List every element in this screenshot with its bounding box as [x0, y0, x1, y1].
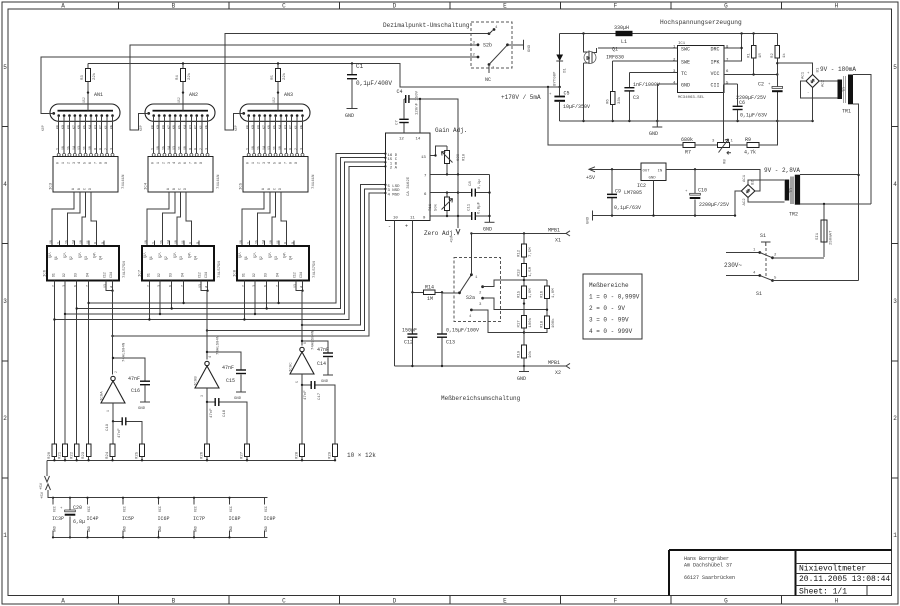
- divider resistor R15: [518, 286, 534, 316]
- svg-text:E: E: [503, 3, 507, 10]
- IC1 pin 7 wire: [430, 173, 490, 175]
- sense wire pin 2: [613, 61, 678, 92]
- range switch S2a dashed box: [454, 257, 500, 321]
- svg-text:47nF: 47nF: [304, 390, 308, 400]
- svg-text:10 × 12k: 10 × 12k: [347, 452, 376, 459]
- feedback resistor R9: [730, 121, 778, 156]
- svg-text:47nF: 47nF: [317, 347, 329, 353]
- svg-text:B: B: [172, 3, 176, 10]
- svg-text:C17: C17: [318, 392, 322, 400]
- svg-text:IC4: IC4: [145, 182, 149, 190]
- svg-text:47nF: 47nF: [118, 428, 122, 438]
- svg-text:+: +: [405, 224, 408, 230]
- ground at C16: [138, 402, 150, 411]
- frame column ticks: [119, 2, 782, 604]
- boost diode D1: [554, 34, 568, 89]
- svg-text:230V~: 230V~: [724, 262, 742, 269]
- svg-text:CII: CII: [711, 83, 720, 89]
- svg-text:C12: C12: [404, 340, 413, 346]
- svg-text:C1: C1: [356, 63, 364, 70]
- svg-text:74141N: 74141N: [122, 174, 126, 189]
- svg-text:C16: C16: [131, 388, 140, 394]
- svg-text:GND: GND: [528, 44, 532, 52]
- bus junction dots: [53, 302, 280, 321]
- svg-text:IC3P: IC3P: [52, 516, 64, 522]
- bridge AC2 wire: [819, 80, 837, 82]
- ground symbol at C1: [345, 109, 358, 120]
- feedback resistor R7: [681, 137, 718, 156]
- svg-text:IC9P: IC9P: [264, 516, 276, 522]
- capacitor C17: [301, 381, 335, 444]
- svg-text:2 = 0 - 9V: 2 = 0 - 9V: [589, 305, 625, 312]
- svg-text:F: F: [614, 598, 618, 605]
- switching regulator IC MC34063: [673, 42, 729, 100]
- svg-text:H: H: [835, 3, 839, 10]
- svg-text:A: A: [61, 598, 65, 605]
- svg-text:R5: R5: [271, 75, 275, 80]
- HV feedback wire: [548, 87, 683, 145]
- svg-text:R13: R13: [518, 269, 522, 277]
- HV section top rail: [560, 33, 778, 35]
- timing capacitor C3: [624, 82, 660, 121]
- svg-text:74LS75N: 74LS75N: [123, 261, 127, 278]
- svg-text:R23: R23: [82, 451, 86, 459]
- svg-text:GND: GND: [649, 131, 658, 137]
- svg-text:100k: 100k: [528, 317, 533, 327]
- svg-text:22k: 22k: [187, 72, 192, 80]
- svg-text:3: 3: [200, 395, 204, 397]
- switch S2a: [442, 273, 484, 319]
- svg-text:IC2: IC2: [637, 183, 646, 189]
- feedback pins 7+8 wires: [724, 34, 742, 62]
- svg-text:12: 12: [399, 138, 404, 142]
- switch S2b: [473, 26, 524, 83]
- svg-text:R19: R19: [518, 350, 522, 358]
- svg-text:0,1μF/63V: 0,1μF/63V: [740, 113, 767, 119]
- svg-text:C: C: [282, 598, 286, 605]
- svg-text:R12: R12: [518, 249, 522, 257]
- svg-text:Hans Borngräber: Hans Borngräber: [684, 556, 729, 562]
- svg-text:MPB1: MPB1: [548, 228, 560, 234]
- +5V output arrow: [586, 167, 595, 181]
- svg-text:1: 1: [893, 532, 897, 539]
- +5V arrow at supply row: [41, 484, 53, 499]
- svg-text:Dezimalpunkt-Umschaltung: Dezimalpunkt-Umschaltung: [383, 22, 470, 29]
- svg-text:IC3: IC3: [50, 182, 54, 190]
- svg-text:Gain Adj.: Gain Adj.: [435, 127, 467, 134]
- mains switch S1: [726, 233, 859, 297]
- svg-text:C15: C15: [226, 378, 235, 384]
- svg-text:VCC: VCC: [87, 506, 91, 512]
- svg-text:GND: GND: [483, 227, 492, 233]
- bridge AC1 wire: [801, 81, 838, 98]
- svg-text:E: E: [503, 598, 507, 605]
- svg-text:74ALS04N: 74ALS04N: [312, 330, 316, 350]
- BCD bus line bit C: [77, 158, 386, 309]
- svg-text:250mAT: 250mAT: [830, 230, 834, 245]
- ground at S2b: [524, 40, 533, 52]
- input connector MPB1 X1: [471, 228, 570, 244]
- svg-text:4 = 0 - 999V: 4 = 0 - 999V: [589, 328, 633, 335]
- bridge rectifier B2: [741, 174, 755, 205]
- svg-text:0,1μF/63V: 0,1μF/63V: [614, 205, 641, 211]
- svg-text:1,5M: 1,5M: [529, 266, 533, 276]
- frame column letters top: [61, 3, 838, 10]
- capacitor C12: [402, 292, 417, 366]
- svg-text:F: F: [614, 3, 618, 10]
- svg-text:SWE: SWE: [681, 60, 690, 66]
- svg-text:74141N: 74141N: [217, 174, 221, 189]
- svg-text:IC9C: IC9C: [290, 362, 294, 372]
- pullup resistors R20-R29: [48, 444, 337, 460]
- svg-text:Zero Adj.: Zero Adj.: [424, 230, 456, 237]
- svg-text:AC2: AC2: [822, 79, 826, 87]
- ground symbol at rail end: [587, 211, 593, 225]
- divider resistor R18: [524, 316, 556, 333]
- svg-text:R20: R20: [48, 451, 52, 459]
- svg-text:50k: 50k: [434, 203, 439, 211]
- svg-text:GND: GND: [264, 526, 268, 532]
- svg-text:0,1μ: 0,1μ: [478, 179, 482, 189]
- low voltage ground rail: [593, 215, 736, 217]
- svg-text:C4: C4: [397, 89, 403, 95]
- svg-text:AN1: AN1: [94, 92, 103, 98]
- svg-text:VCC: VCC: [123, 506, 127, 512]
- svg-text:74141N: 74141N: [312, 174, 316, 189]
- capacitor C11: [430, 201, 490, 220]
- svg-text:G: G: [724, 3, 728, 10]
- HV filter capacitor C5: [549, 87, 590, 121]
- svg-text:+5V: +5V: [40, 482, 44, 490]
- transformer TR1: [838, 75, 854, 115]
- svg-text:IC8: IC8: [234, 269, 238, 277]
- svg-text:C5: C5: [564, 91, 570, 97]
- S2a contact 4 wire: [471, 310, 524, 333]
- svg-text:150pF: 150pF: [402, 328, 417, 334]
- timing wire pin 3: [629, 73, 677, 88]
- inverter IC9C input wire: [301, 374, 303, 385]
- svg-text:1k: 1k: [782, 53, 787, 58]
- frame row ticks: [2, 126, 898, 478]
- svg-text:GND: GND: [53, 526, 57, 532]
- svg-text:L1: L1: [621, 39, 627, 45]
- svg-text:IC5P: IC5P: [122, 516, 134, 522]
- capacitor C19: [106, 417, 142, 444]
- svg-text:C20: C20: [73, 505, 82, 511]
- svg-text:MPB1: MPB1: [548, 360, 560, 366]
- svg-text:R28: R28: [296, 451, 300, 459]
- svg-text:IC9B: IC9B: [195, 376, 199, 386]
- title block: [669, 550, 892, 597]
- svg-text:SWC: SWC: [681, 47, 690, 53]
- svg-text:MC34063-SEL: MC34063-SEL: [678, 96, 705, 100]
- svg-text:C19: C19: [106, 423, 110, 431]
- svg-text:D: D: [393, 598, 397, 605]
- TR2 primary bottom wire: [800, 203, 871, 205]
- anode supply rail +170V: [88, 64, 560, 88]
- svg-text:Am Dachshübel 37: Am Dachshübel 37: [684, 563, 732, 569]
- svg-text:DRC: DRC: [711, 47, 720, 53]
- svg-text:D: D: [393, 3, 397, 10]
- svg-text:X2: X2: [555, 370, 561, 376]
- svg-text:IC6: IC6: [44, 269, 48, 277]
- svg-text:IPK: IPK: [711, 60, 720, 66]
- svg-text:680k: 680k: [681, 137, 693, 143]
- capacitor C8: [458, 179, 490, 197]
- svg-text:GND: GND: [517, 376, 526, 382]
- svg-text:S2b: S2b: [483, 43, 492, 49]
- svg-text:3 = 0 - 99V: 3 = 0 - 99V: [589, 317, 629, 324]
- latch IC6 data input columns down to pullups: [54, 281, 88, 445]
- svg-text:GND: GND: [123, 526, 127, 532]
- svg-text:74LS75N: 74LS75N: [313, 261, 317, 278]
- svg-text:IRF830: IRF830: [606, 55, 624, 61]
- svg-text:100k: 100k: [551, 318, 556, 328]
- svg-text:2200μF/25V: 2200μF/25V: [699, 202, 729, 208]
- inverter IC9A input wire: [112, 403, 114, 421]
- svg-text:SI1: SI1: [816, 232, 820, 240]
- trimmer R8: [712, 84, 734, 164]
- sense resistor R6: [607, 92, 623, 122]
- svg-text:1R: 1R: [759, 53, 763, 58]
- BCD bus line bit B: [65, 162, 385, 314]
- bridge top feed wire: [777, 63, 812, 74]
- svg-text:AC2: AC2: [743, 198, 747, 206]
- frame column letters bottom: [61, 598, 838, 605]
- svg-text:R25: R25: [136, 451, 140, 459]
- svg-text:5: 5: [893, 64, 897, 71]
- svg-text:C8: C8: [469, 181, 473, 186]
- svg-text:Hochspannungserzeugung: Hochspannungserzeugung: [660, 19, 742, 26]
- svg-text:IC1: IC1: [678, 42, 686, 46]
- svg-text:VCC: VCC: [229, 506, 233, 512]
- svg-text:4,7k: 4,7k: [744, 150, 756, 156]
- ground right of IC1: [483, 174, 495, 232]
- svg-text:R2: R2: [771, 53, 775, 58]
- svg-text:VCC: VCC: [264, 506, 268, 512]
- svg-text:S2a: S2a: [466, 295, 475, 301]
- svg-text:R29: R29: [329, 451, 333, 459]
- svg-text:47nF: 47nF: [210, 408, 214, 418]
- svg-text:GND: GND: [587, 216, 591, 224]
- decimal point wire tube1 to S2b: [41, 57, 478, 113]
- capacitor C1: [347, 63, 392, 109]
- svg-text:C11: C11: [468, 203, 472, 211]
- svg-text:3: 3: [3, 298, 7, 305]
- svg-text:R14: R14: [425, 285, 434, 291]
- svg-text:47nF: 47nF: [222, 365, 234, 371]
- svg-text:R3: R3: [81, 75, 85, 80]
- svg-text:6,8μF: 6,8μF: [478, 201, 482, 214]
- bypass capacitor C6: [733, 100, 767, 121]
- svg-text:LM7805: LM7805: [624, 190, 642, 196]
- svg-text:A: A: [61, 3, 65, 10]
- electrolytic capacitor C20: [60, 498, 85, 538]
- svg-text:6,8μ: 6,8μ: [73, 519, 85, 525]
- svg-text:4: 4: [893, 181, 897, 188]
- svg-text:IC5: IC5: [240, 182, 244, 190]
- regulator ground lead: [653, 180, 655, 215]
- svg-text:GND: GND: [649, 177, 657, 181]
- svg-text:R8: R8: [724, 159, 728, 164]
- svg-text:680: 680: [457, 153, 461, 161]
- svg-text:TR: TR: [843, 87, 847, 92]
- +5V arrow at trimmer column: [451, 229, 461, 243]
- gate drive wire pin 1: [598, 47, 678, 49]
- svg-text:C7: C7: [396, 120, 400, 125]
- resistor R14: [411, 285, 443, 303]
- svg-text:4: 4: [208, 356, 212, 358]
- latch IC7 data input columns: [149, 281, 183, 320]
- svg-text:C: C: [282, 3, 286, 10]
- svg-text:330μH: 330μH: [614, 25, 629, 31]
- nixie stage 1 (tube AN1, driver IC3, latch IC6): [47, 64, 120, 292]
- svg-text:R22: R22: [70, 451, 74, 459]
- svg-text:1,0M: 1,0M: [552, 288, 556, 298]
- bridge minus wire: [812, 88, 814, 122]
- svg-text:IC4P: IC4P: [87, 516, 99, 522]
- svg-text:66127 Saarbrücken: 66127 Saarbrücken: [684, 575, 735, 581]
- svg-text:G: G: [724, 598, 728, 605]
- frame row numbers right: [893, 64, 897, 539]
- nixie stage 3 (tube AN3, driver IC5, latch IC8): [237, 64, 310, 292]
- digit select line MSD: [113, 193, 386, 336]
- trimmer R11: [429, 193, 453, 216]
- ground at C14: [321, 375, 333, 384]
- svg-text:IC7: IC7: [139, 269, 143, 277]
- +5V supply arrow left: [40, 460, 50, 490]
- svg-text:S1: S1: [760, 233, 766, 239]
- capacitor C4: [397, 89, 459, 228]
- ground wire pin 4: [657, 84, 677, 121]
- S2a contact 2 wire: [483, 280, 524, 287]
- resistor R1: [748, 34, 764, 75]
- svg-text:4: 4: [3, 181, 7, 188]
- ground below X2: [517, 366, 529, 382]
- svg-text:GND: GND: [321, 380, 329, 384]
- svg-text:AN2: AN2: [189, 92, 198, 98]
- IC1 pin 6 wire: [430, 192, 458, 194]
- A/D converter IC1 CA3162E: [384, 133, 430, 230]
- title block owner text: [684, 556, 735, 581]
- svg-text:9V - 180mA: 9V - 180mA: [820, 66, 856, 73]
- bypass capacitor C9: [607, 169, 641, 215]
- S2a contact 3 wire: [483, 298, 547, 310]
- inverter IC9B: [195, 335, 221, 397]
- capacitor C16: [112, 357, 150, 402]
- svg-text:10: 10: [393, 217, 398, 221]
- capacitor C7: [396, 99, 409, 133]
- smoothing capacitor C10: [685, 169, 729, 215]
- nixie stage 2 (tube AN2, driver IC4, latch IC7): [142, 64, 215, 292]
- svg-text:10k: 10k: [528, 350, 533, 358]
- bridge B2 AC wires: [748, 180, 785, 202]
- IC1 plus input riser pin 11: [411, 221, 413, 293]
- svg-text:H: H: [835, 598, 839, 605]
- svg-text:GND: GND: [194, 526, 198, 532]
- latch strobe column 1: [112, 291, 114, 375]
- svg-text:74ALS04N: 74ALS04N: [123, 342, 127, 362]
- +5V rail: [589, 168, 641, 170]
- digit select line NSD: [207, 189, 385, 331]
- svg-text:C3: C3: [633, 95, 639, 101]
- svg-text:Sheet: 1/1: Sheet: 1/1: [799, 588, 847, 597]
- svg-text:C13: C13: [446, 340, 455, 346]
- svg-text:GND: GND: [234, 397, 242, 401]
- svg-text:TC: TC: [681, 71, 687, 77]
- svg-text:IC6P: IC6P: [158, 516, 170, 522]
- BCD bus line bit D: [89, 154, 386, 303]
- svg-text:7,5M: 7,5M: [529, 247, 533, 257]
- svg-text:4 MSD: 4 MSD: [388, 193, 401, 197]
- svg-text:1: 1: [3, 532, 7, 539]
- svg-text:C9: C9: [615, 189, 621, 195]
- svg-text:IC7P: IC7P: [193, 516, 205, 522]
- svg-text:KOP: KOP: [234, 125, 238, 131]
- svg-text:Meßbereiche: Meßbereiche: [589, 282, 629, 289]
- svg-text:13: 13: [421, 156, 426, 160]
- latch strobe column 3: [301, 291, 303, 346]
- voltage regulator IC2 LM7805: [624, 163, 666, 196]
- svg-text:VCC: VCC: [194, 506, 198, 512]
- bridge rectifier B1: [802, 67, 826, 95]
- rectified supply capacitor C2: [736, 62, 783, 121]
- svg-text:1M: 1M: [427, 296, 433, 302]
- regulator input rail: [666, 169, 760, 191]
- measurement range info box: [583, 274, 642, 339]
- svg-text:Meßbereichsumschaltung: Meßbereichsumschaltung: [441, 395, 521, 402]
- svg-text:1nF/1000V: 1nF/1000V: [633, 82, 660, 88]
- latch strobe column 2: [206, 291, 208, 360]
- svg-text:R11: R11: [429, 203, 433, 211]
- divider resistor R16: [524, 280, 556, 316]
- svg-text:+5V: +5V: [586, 175, 595, 181]
- svg-text:10μF/350V: 10μF/350V: [563, 104, 590, 110]
- svg-text:IC9A: IC9A: [101, 391, 105, 401]
- svg-text:KOP: KOP: [41, 125, 45, 131]
- svg-text:33k: 33k: [617, 96, 622, 104]
- svg-text:BYT08P: BYT08P: [554, 71, 558, 86]
- svg-text:-: -: [807, 91, 809, 95]
- capacitor C18: [206, 398, 247, 444]
- svg-text:AN3: AN3: [284, 92, 293, 98]
- transformer TR2: [785, 175, 800, 218]
- svg-text:VCC: VCC: [53, 506, 57, 512]
- svg-text:R27: R27: [241, 451, 245, 459]
- svg-text:R15: R15: [518, 290, 522, 298]
- ground symbol MC34063: [649, 121, 662, 137]
- capacitor C13: [437, 292, 479, 366]
- svg-text:GND: GND: [158, 526, 162, 532]
- svg-text:+170V / 5mA: +170V / 5mA: [501, 94, 541, 101]
- latch IC8 data input columns: [244, 281, 278, 320]
- svg-text:47nF: 47nF: [128, 376, 140, 382]
- ground at C15: [234, 392, 246, 401]
- svg-text:TR: TR: [790, 188, 794, 193]
- divider resistor R12: [518, 233, 534, 257]
- svg-text:R21: R21: [59, 451, 63, 459]
- HV section ground rail: [560, 120, 813, 122]
- svg-text:2 A: 2 A: [390, 167, 398, 171]
- CII wire pin 5: [724, 84, 738, 106]
- TR2 primary top wire: [800, 174, 859, 176]
- MOSFET Q1: [584, 34, 625, 122]
- svg-text:1,0M: 1,0M: [529, 288, 533, 298]
- VCC wire pin 6: [724, 74, 777, 76]
- svg-text:14: 14: [416, 138, 421, 142]
- svg-text:C18: C18: [223, 409, 227, 417]
- svg-text:R10: R10: [463, 153, 467, 161]
